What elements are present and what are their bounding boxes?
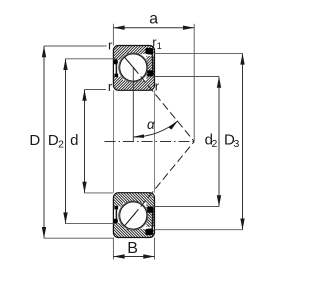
dimension d line: [84, 90, 86, 193]
dimension B extension right: [154, 238, 156, 260]
dimension D extension top: [44, 45, 107, 47]
face line right between sections: [154, 90, 156, 192]
dimension B line: [113, 256, 154, 258]
svg-text:D: D: [29, 132, 40, 149]
dimension D2 line: [65, 59, 67, 224]
dimension d2 extension bottom: [155, 206, 220, 208]
dimension a line: [113, 27, 194, 29]
angle alpha arc: [133, 121, 178, 137]
svg-text:r: r: [155, 79, 160, 94]
dimension d extension top: [85, 89, 106, 91]
central axis dash-dot: [105, 141, 195, 143]
svg-text:α: α: [147, 117, 156, 132]
alpha arc arrowhead left: [133, 134, 144, 138]
svg-text:r: r: [108, 38, 113, 53]
svg-text:D2: D2: [48, 132, 64, 151]
dimension D3 extension bottom: [154, 229, 243, 231]
dimension d2 extension top: [155, 76, 220, 78]
dimension D extension bottom: [44, 237, 113, 239]
svg-text:D3: D3: [224, 131, 239, 150]
svg-text:d: d: [70, 132, 78, 149]
dimension d2 line: [218, 77, 220, 207]
dimension D3 line: [242, 53, 244, 229]
face line left between sections: [112, 90, 114, 192]
dimension a extension right: [193, 24, 195, 142]
dimension D2 extension bottom: [66, 223, 118, 225]
svg-text:B: B: [127, 240, 138, 257]
vertical center line (top section to axis): [132, 68, 134, 142]
bottom bearing section (mirrored): [112, 142, 194, 240]
svg-text:r: r: [108, 79, 113, 94]
dimension D3 extension top: [154, 52, 243, 54]
svg-text:d2: d2: [205, 131, 218, 150]
dimension d extension bottom: [85, 192, 114, 194]
alpha arc arrowhead right: [169, 121, 178, 130]
dimension D2 extension top: [66, 58, 118, 60]
dimension D line: [43, 46, 45, 238]
dimension B extension left: [112, 238, 114, 260]
top bearing section: [112, 44, 194, 142]
svg-text:r1: r1: [152, 34, 162, 52]
svg-text:a: a: [149, 11, 158, 28]
dimension a extension left: [112, 24, 114, 46]
